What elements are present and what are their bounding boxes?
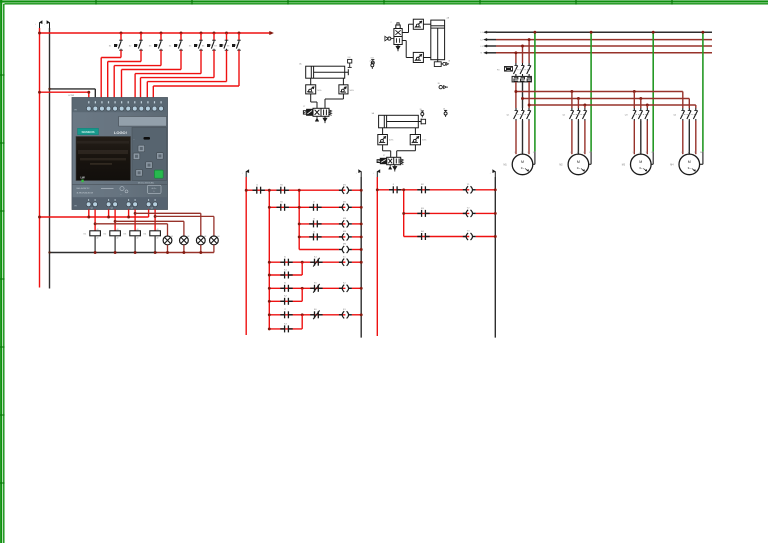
wire branch to lamp H4 — [154, 215, 157, 218]
svg-text:3LTR07646LK1S8: 3LTR07646LK1S8 — [77, 193, 94, 195]
wire drop motor 2 phase 3 — [584, 105, 586, 108]
svg-text:B3: B3 — [421, 208, 424, 210]
coil M5 — [339, 249, 343, 251]
svg-text:H2: H2 — [187, 236, 189, 238]
svg-text:A1: A1 — [117, 228, 119, 231]
svg-text:PE: PE — [700, 152, 702, 154]
wire distribution L3 — [529, 104, 696, 106]
contactor Q3 contacts — [633, 108, 635, 111]
rung 7 parallel wire — [269, 300, 302, 302]
svg-text:L1: L1 — [481, 32, 484, 34]
wire stub to switch S6 — [213, 33, 215, 40]
svg-text:1A: 1A — [299, 63, 302, 66]
pipe 2V2 to cylinder — [423, 23, 430, 25]
motor M2 — [568, 154, 589, 175]
motor M1 — [512, 154, 533, 175]
rung 2-2 wire — [404, 212, 470, 214]
lamp H4 — [210, 236, 219, 245]
wire bus L1 — [487, 31, 496, 33]
sensor 3S1 marker — [421, 110, 424, 112]
svg-text:I5: I5 — [284, 257, 287, 259]
svg-text:H1: H1 — [171, 236, 173, 238]
svg-text:LOGO!: LOGO! — [114, 130, 127, 135]
rung 4 wire — [299, 236, 345, 238]
relay coil K4 — [150, 231, 161, 236]
contact I5 — [280, 261, 284, 263]
wire S5 to PLC input — [200, 50, 202, 73]
svg-text:K5: K5 — [314, 283, 317, 285]
svg-text:Y3: Y3 — [467, 231, 470, 233]
svg-text:K4: K4 — [144, 233, 147, 235]
svg-text:W1: W1 — [583, 152, 585, 154]
rung 3 to rail — [352, 223, 361, 225]
svg-text:S3: S3 — [149, 45, 152, 47]
node 0V marker — [49, 23, 51, 29]
svg-text:PE: PE — [533, 152, 535, 154]
rung 8 wire — [269, 314, 345, 316]
svg-text:A2: A2 — [157, 237, 159, 240]
coil Y2 — [463, 212, 467, 214]
relay coil K2 — [110, 231, 121, 236]
svg-text:50%: 50% — [389, 140, 393, 142]
sensor 1S2 marker — [348, 59, 352, 63]
svg-text:M4: M4 — [670, 165, 674, 167]
wire stub to switch S1 — [120, 33, 122, 40]
svg-text:K1: K1 — [284, 269, 287, 271]
svg-text:I4: I4 — [313, 231, 316, 233]
svg-text:K2: K2 — [104, 233, 107, 235]
svg-text:A2: A2 — [97, 237, 99, 240]
svg-text:L3: L3 — [481, 46, 484, 48]
junction switch S3 — [160, 32, 163, 35]
throttle valve 1V2 — [306, 85, 316, 94]
wire stub to switch S4 — [180, 33, 182, 40]
relay coil K1 — [90, 231, 101, 236]
lamp H3 — [196, 236, 205, 245]
coil M4 — [339, 236, 343, 238]
contact I4 — [309, 236, 313, 238]
switch S7 — [225, 39, 229, 41]
junction switch S6 — [213, 32, 216, 35]
wire ladder1 feeder B — [298, 190, 300, 249]
svg-text:Q3: Q3 — [625, 115, 629, 117]
switch S2 — [139, 39, 143, 41]
wire output 24V feed — [40, 216, 149, 218]
svg-text:PE: PE — [589, 152, 591, 154]
svg-text:+: + — [373, 172, 374, 174]
wire drop motor 3 phase 1 — [633, 92, 635, 109]
svg-text:2: 2 — [391, 22, 392, 24]
svg-text:+: + — [35, 23, 36, 25]
svg-text:I7: I7 — [284, 309, 287, 311]
contact NC K4 — [310, 261, 314, 263]
switch S4 — [179, 39, 183, 41]
rung 8 parallel wire — [269, 328, 302, 330]
svg-text:S6: S6 — [202, 45, 205, 47]
svg-text:4x 2x↓: 4x 2x↓ — [152, 188, 157, 190]
svg-text:3~: 3~ — [521, 166, 525, 170]
contact I7 — [280, 314, 284, 316]
contactor Q2 contacts — [571, 108, 573, 111]
wire cylinder 1A ports — [310, 78, 312, 85]
wire top 24V bus — [40, 32, 273, 34]
wire Q3 to coil K3 — [134, 210, 136, 231]
svg-text:W1: W1 — [528, 152, 530, 154]
svg-text:K6: K6 — [280, 202, 283, 204]
rung 1 to rail — [352, 189, 361, 191]
wire drop motor 3 phase 3 — [646, 105, 648, 108]
rung 6 wire — [269, 261, 345, 263]
rung 2-1 to rail — [476, 189, 496, 191]
contact B4 — [417, 236, 421, 238]
wire ladder2 left rail — [376, 177, 378, 336]
wire drop motor 2 phase 2 — [577, 99, 579, 109]
rung 5 to rail — [352, 249, 361, 251]
wire 0V rail — [49, 28, 51, 289]
junction switch S1 — [120, 32, 123, 35]
wire contacts to motor M3 — [633, 121, 635, 155]
throttle valve 2V3 — [413, 52, 423, 62]
rung 2-1 wire — [377, 189, 469, 191]
pipe 2V3 to cylinder — [423, 57, 430, 59]
wire distribution L1 — [516, 91, 683, 93]
svg-text:50%: 50% — [350, 90, 354, 92]
node ladder2 0V marker — [494, 172, 496, 178]
junction switch S7 — [225, 32, 228, 35]
svg-text:K2: K2 — [343, 283, 346, 285]
svg-text:M: M — [521, 160, 524, 164]
svg-text:1Y: 1Y — [303, 106, 306, 108]
pipe 3V3 to 3V1 — [414, 145, 416, 151]
wire ladder1 left rail — [245, 177, 247, 335]
wire cylinder 3A ports — [382, 128, 384, 135]
svg-text:Y2: Y2 — [467, 208, 470, 210]
wire S1 to PLC input — [120, 50, 122, 57]
wire S2 to PLC input — [140, 50, 142, 61]
svg-text:3~: 3~ — [639, 166, 643, 170]
wire drop motor 2 phase 1 — [571, 92, 573, 109]
svg-text:LW: LW — [81, 176, 86, 180]
switch S3 — [159, 39, 163, 41]
svg-text:U1: U1 — [681, 152, 683, 154]
rung 2-3 wire — [404, 236, 470, 238]
wire ladder2 right rail — [494, 177, 496, 338]
valve 3V1 5/2 — [387, 157, 401, 164]
wire L+ supply — [40, 91, 89, 93]
supply 1V1 — [316, 116, 318, 118]
svg-text:+: + — [356, 172, 357, 174]
node ladder1 +24V marker — [245, 172, 247, 178]
svg-text:M: M — [577, 160, 580, 164]
contact I6 — [280, 287, 284, 289]
wire stub to switch S8 — [238, 33, 240, 40]
wire PE drop motor 2 — [590, 32, 592, 152]
sensor roller 2S — [441, 63, 443, 65]
svg-text:M1: M1 — [343, 184, 347, 186]
contact I3 — [309, 223, 313, 225]
svg-text:W1: W1 — [694, 152, 696, 154]
svg-text:A1: A1 — [137, 228, 139, 231]
svg-text:U1: U1 — [633, 152, 635, 154]
rung 2 wire — [269, 206, 345, 208]
contact parallel K1 — [280, 274, 284, 276]
rung 7 to rail — [352, 287, 361, 289]
svg-text:Q1: Q1 — [507, 115, 511, 117]
svg-text:M3: M3 — [343, 218, 347, 220]
wire Q1 to coil K1 — [94, 210, 96, 231]
rung 2 to rail — [352, 206, 361, 208]
contact K6 — [277, 206, 281, 208]
svg-text:K3: K3 — [284, 323, 287, 325]
circuit breaker Q0 — [515, 63, 517, 66]
svg-text:A1: A1 — [97, 228, 99, 231]
svg-text:+: + — [44, 23, 45, 25]
svg-text:2A: 2A — [447, 17, 450, 20]
throttle valve 3V2 — [378, 135, 388, 145]
rung 8 to rail — [352, 314, 361, 316]
svg-text:3~: 3~ — [688, 166, 692, 170]
rung 4 to rail — [352, 236, 361, 238]
wire stub to switch S2 — [140, 33, 142, 40]
svg-text:M: M — [688, 160, 691, 164]
wire PE drop motor 1 — [534, 32, 536, 152]
wire stub to switch S5 — [200, 33, 202, 40]
contactor Q1 contacts — [515, 108, 517, 111]
svg-text:3~: 3~ — [577, 166, 581, 170]
wire Q4 to coil K4 — [154, 210, 156, 231]
svg-text:L2: L2 — [481, 39, 484, 41]
svg-text:K3: K3 — [343, 309, 346, 311]
sensor 3S2 marker — [444, 109, 447, 111]
rung 7 wire — [269, 287, 345, 289]
svg-text:3A: 3A — [372, 112, 375, 115]
switch S6 — [212, 39, 216, 41]
contact B2 — [417, 189, 421, 191]
svg-text:S2: S2 — [129, 45, 132, 47]
contact NC K6 — [310, 314, 314, 316]
svg-text:PE: PE — [652, 152, 654, 154]
wire branch to lamp H2 — [114, 220, 117, 223]
node ladder2 +24V marker — [376, 172, 378, 178]
rung 2-2 to rail — [476, 212, 496, 214]
svg-text:3B: 3B — [438, 83, 441, 85]
svg-text:M3: M3 — [622, 165, 626, 167]
cylinder 3A1 — [379, 115, 419, 128]
coil M3 — [339, 223, 343, 225]
wire breaker to distribution — [515, 82, 517, 108]
wire S4 to PLC input — [180, 50, 182, 69]
node ladder1 0V marker — [360, 172, 362, 178]
svg-text:K4: K4 — [314, 257, 317, 259]
cylinder 1A1 — [306, 66, 345, 78]
wire PE drop motor 3 — [652, 32, 654, 152]
throttle valve 2V2 — [413, 19, 423, 29]
wire contacts to motor M2 — [571, 121, 573, 155]
wire S7 to PLC input — [226, 50, 228, 81]
rung 6 parallel wire — [269, 274, 302, 276]
wire bus L2 — [487, 39, 496, 41]
svg-text:S4: S4 — [169, 45, 172, 47]
junction switch S4 — [180, 32, 183, 35]
cam box cylinder 2A — [434, 62, 441, 67]
border frame — [0, 0, 768, 2]
junction switch S2 — [140, 32, 143, 35]
svg-text:1S3: 1S3 — [371, 57, 374, 59]
svg-text:B4: B4 — [421, 231, 424, 233]
exhaust 3V1 — [394, 165, 396, 167]
wire S8 to PLC input — [238, 50, 240, 86]
switch S5 — [199, 39, 203, 41]
wire PE drop motor 4 — [702, 32, 704, 152]
throttle valve 1V3 — [339, 85, 348, 94]
cylinder 2A1 — [431, 20, 445, 60]
svg-text:S7: S7 — [214, 45, 217, 47]
wire drop motor 4 phase 1 — [682, 92, 684, 109]
wire drop motor 3 phase 2 — [640, 99, 642, 109]
contact K5 — [277, 189, 281, 191]
wire 0V output bus — [50, 252, 158, 254]
contact B3 — [417, 212, 421, 214]
wire Q2 to coil K2 — [114, 210, 116, 231]
wire drop motor 4 phase 2 — [688, 99, 690, 109]
contact parallel K3 — [280, 328, 284, 330]
svg-text:M2: M2 — [559, 165, 563, 167]
svg-text:3Y: 3Y — [383, 155, 386, 157]
svg-text:Q3: Q3 — [131, 208, 133, 210]
svg-text:I1: I1 — [256, 185, 259, 187]
wire branch to lamp H1 — [94, 222, 97, 225]
switch S1 — [119, 39, 123, 41]
wire M supply — [50, 88, 96, 90]
contact NC K5 — [310, 287, 314, 289]
wire S6 to PLC input — [213, 50, 215, 77]
svg-text:F0: F0 — [497, 70, 500, 72]
valve 1V1 5/2 — [313, 108, 329, 116]
svg-text:M4: M4 — [343, 231, 347, 233]
svg-text:A2: A2 — [137, 237, 139, 240]
coil M1 — [339, 189, 343, 191]
rung 5 wire — [299, 249, 339, 251]
magnetic trip box — [505, 67, 513, 72]
svg-text:K1: K1 — [343, 256, 346, 258]
wire stub to switch S3 — [160, 33, 162, 40]
pipe 2V1 outputs — [402, 32, 408, 34]
overload relay F1 — [512, 76, 531, 82]
svg-text:Y1: Y1 — [467, 184, 470, 186]
coil Y3 — [463, 236, 467, 238]
sensor 2B marker — [371, 62, 374, 64]
svg-text:50%: 50% — [422, 140, 426, 142]
pipe 1V3 to 1V1 — [342, 94, 344, 99]
wire distribution L2 — [523, 98, 690, 100]
exhaust 2V1 — [397, 45, 399, 47]
coil M2 — [339, 206, 343, 208]
coil K3 — [339, 314, 343, 316]
contact I1 — [253, 189, 257, 191]
junction switch S8 — [238, 32, 241, 35]
coil Y1 — [463, 189, 467, 191]
switch S8 — [237, 39, 241, 41]
rung 1 wire — [246, 189, 345, 191]
rung 2-3 to rail — [476, 236, 496, 238]
wire drop motor 4 phase 3 — [695, 105, 697, 108]
wire breaker feeds — [515, 53, 517, 63]
svg-text:H3: H3 — [204, 236, 206, 238]
svg-text:M5: M5 — [343, 244, 347, 246]
rung 3 wire — [299, 223, 345, 225]
wire ladder1 feeder A — [268, 190, 270, 329]
pipe 3V2 to 3V1 — [382, 145, 384, 151]
svg-text:8xE 4x24V DC: 8xE 4x24V DC — [77, 188, 91, 190]
svg-text:M2: M2 — [343, 202, 347, 204]
svg-text:SIEMENS: SIEMENS — [81, 130, 94, 134]
svg-text:W1: W1 — [646, 152, 648, 154]
wire +24V rail — [39, 28, 41, 288]
exhaust 1V1 — [324, 116, 326, 118]
svg-text:A1: A1 — [157, 228, 159, 231]
svg-text:+: + — [242, 172, 243, 174]
relay coil K3 — [130, 231, 141, 236]
contact parallel K2 — [280, 300, 284, 302]
rung 6 to rail — [352, 261, 361, 263]
lever actuator 2V1 — [388, 37, 391, 40]
wire S3 to PLC input — [160, 50, 162, 65]
svg-text:B2: B2 — [421, 184, 424, 186]
wire ladder2 feeder — [403, 190, 405, 237]
svg-text:M: M — [639, 160, 642, 164]
lamp H2 — [180, 236, 189, 245]
motor M4 — [679, 154, 700, 175]
svg-text:S5: S5 — [189, 45, 192, 47]
svg-text:I2: I2 — [313, 202, 316, 204]
svg-text:K6: K6 — [314, 309, 317, 311]
svg-text:K5: K5 — [280, 185, 283, 187]
throttle valve 3V3 — [410, 135, 420, 145]
contact I2 — [309, 206, 313, 208]
contactor Q4 contacts — [682, 108, 684, 111]
wire stub to switch S7 — [226, 33, 228, 40]
wire contacts to motor M4 — [682, 121, 684, 155]
svg-text:I6: I6 — [284, 283, 287, 285]
svg-text:K3: K3 — [124, 233, 127, 235]
svg-text:Q2: Q2 — [562, 115, 566, 117]
svg-text:S8: S8 — [227, 45, 230, 47]
svg-text:F: F — [393, 184, 395, 186]
svg-text:●: ● — [134, 139, 135, 141]
wire ladder1 right rail — [360, 177, 362, 338]
svg-text:A2: A2 — [117, 237, 119, 240]
svg-text:K2: K2 — [284, 296, 287, 298]
svg-text:1B: 1B — [448, 61, 450, 63]
svg-text:⏚: ⏚ — [153, 190, 155, 193]
wire bus L3 — [487, 45, 496, 47]
svg-text:U1: U1 — [570, 152, 572, 154]
svg-text:S1: S1 — [109, 45, 112, 47]
node +24V marker — [39, 23, 41, 29]
lamp H1 — [163, 236, 172, 245]
wire contacts to motor M1 — [515, 121, 517, 155]
svg-text:L-PWR: L-PWR — [68, 95, 75, 97]
svg-text:50%: 50% — [317, 90, 321, 92]
svg-text:I3: I3 — [313, 218, 316, 220]
svg-text:K1: K1 — [84, 233, 87, 235]
svg-text:U1: U1 — [515, 152, 517, 154]
svg-text:1S2: 1S2 — [348, 57, 351, 59]
svg-text:M1: M1 — [504, 165, 508, 167]
contact F — [389, 189, 393, 191]
wire branch to lamp H3 — [134, 212, 137, 215]
junction switch S5 — [200, 32, 203, 35]
